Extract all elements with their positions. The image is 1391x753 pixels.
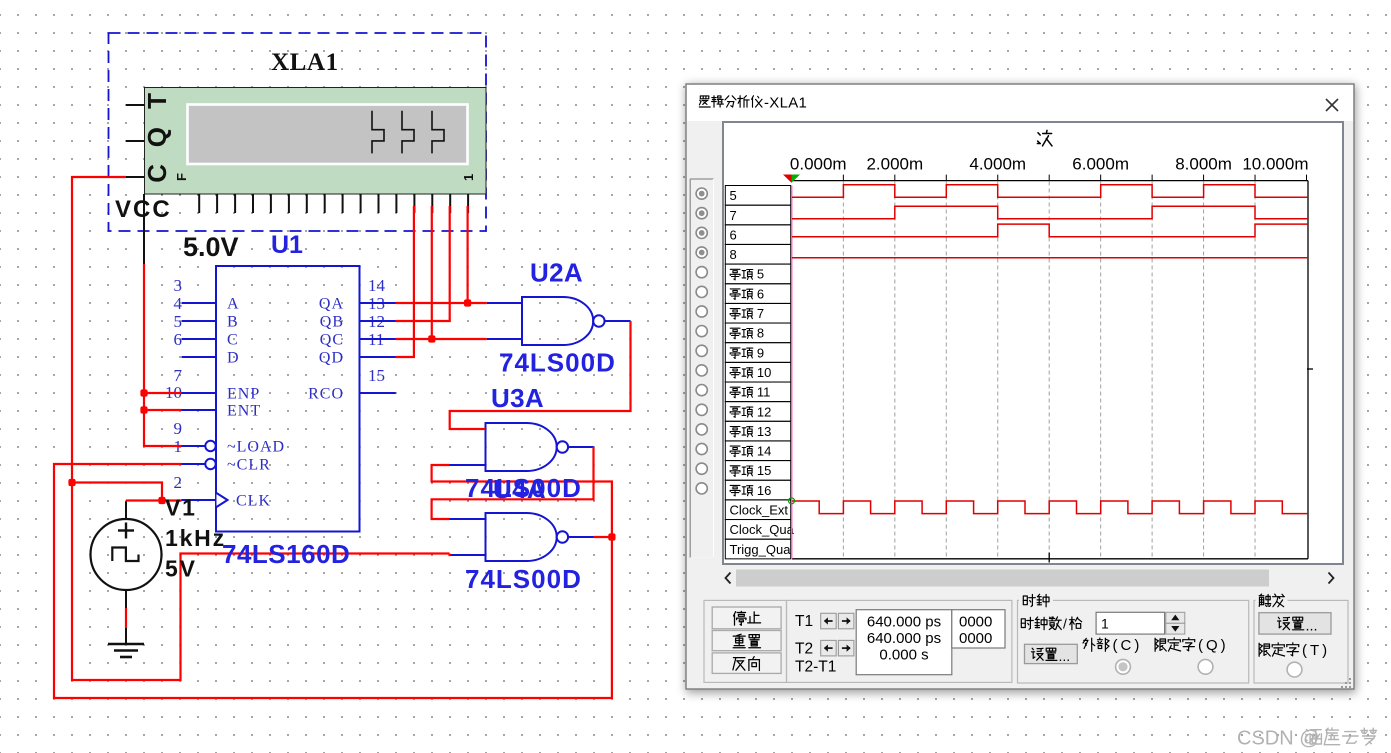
svg-text:0.000 s: 0.000 s: [879, 647, 928, 664]
waveform panel: [723, 122, 1343, 564]
svg-text:8.000m: 8.000m: [1175, 155, 1232, 174]
label 74LS160D: [222, 539, 350, 569]
svg-text:6: 6: [174, 330, 183, 349]
analyzer window frame and title bar: [686, 84, 1354, 689]
svg-text:10.000m: 10.000m: [1242, 155, 1308, 174]
value readout box: [952, 610, 1005, 648]
svg-text:640.000 ps: 640.000 ps: [867, 614, 941, 631]
svg-text:QD: QD: [319, 350, 344, 367]
svg-text:12: 12: [757, 404, 771, 419]
trigger settings button: [1259, 613, 1331, 635]
T1 arrows: [821, 613, 854, 629]
waveform channel 8: [792, 257, 1308, 259]
clocks-per-div input with spinner: [1096, 612, 1185, 634]
svg-text:8: 8: [730, 247, 737, 262]
svg-text:/: /: [1063, 616, 1067, 632]
svg-text:Trigg_Qua: Trigg_Qua: [730, 542, 792, 557]
svg-text:9: 9: [757, 345, 764, 360]
clock source V1: [91, 502, 162, 645]
svg-text:16: 16: [757, 483, 771, 498]
external (C) label: [1083, 637, 1142, 654]
group boxes: [704, 600, 1348, 683]
clock settings button: [1025, 644, 1078, 664]
svg-text:0000: 0000: [959, 630, 992, 647]
button reverse: [712, 653, 781, 674]
svg-text:A: A: [227, 296, 240, 313]
U1 left pin stubs A B C D ENP ENT: [182, 303, 217, 410]
button reset: [712, 631, 781, 651]
svg-text:1: 1: [461, 174, 476, 181]
svg-text:(C): (C): [1113, 637, 1143, 654]
svg-text:2: 2: [174, 473, 183, 492]
label 74LS00D (U3A): [465, 473, 582, 503]
svg-text:T2: T2: [795, 641, 813, 658]
svg-text:14: 14: [757, 444, 771, 459]
svg-text:5: 5: [730, 188, 737, 203]
wire CLK to U4A input B: [72, 483, 451, 681]
U1 ~LOAD pin with bubble: [182, 441, 216, 451]
svg-text:15: 15: [757, 463, 771, 478]
svg-text:5V: 5V: [165, 556, 197, 582]
svg-text:14: 14: [368, 276, 386, 295]
XLA1 marking 1: [461, 174, 476, 181]
NAND gate U3A 74LS00D: [450, 423, 594, 471]
wire VCC rail to ENP ENT ~LOAD: [144, 264, 182, 446]
ground: [108, 644, 144, 657]
label 74LS00D (U2A): [499, 348, 616, 378]
svg-text:T: T: [142, 93, 172, 109]
svg-text:5: 5: [174, 312, 183, 331]
label V1: [165, 495, 197, 521]
dashed grid lines: [843, 182, 1255, 559]
wire QB to XLA pin15: [396, 206, 450, 321]
svg-text:640.000 ps: 640.000 ps: [867, 630, 941, 647]
svg-text:5: 5: [757, 267, 764, 282]
waveform Clock_Ext: [792, 501, 1308, 514]
svg-text:RCO: RCO: [308, 386, 344, 403]
XLA1 pin Q: [126, 127, 172, 147]
U1 pin names: [227, 296, 344, 510]
cursor tick at 5ms: [1048, 553, 1050, 563]
label U4A: [493, 474, 546, 504]
XLA1 VCC pin wire: [143, 194, 145, 266]
svg-text:6: 6: [757, 286, 764, 301]
Clock_Ext green marker: [789, 498, 795, 504]
svg-text:1kHz: 1kHz: [165, 525, 226, 551]
group label trigger: [1256, 593, 1288, 607]
time readout box: [856, 610, 952, 675]
T2-T1 label: [795, 659, 836, 676]
svg-text:C: C: [142, 164, 172, 183]
U1 CLK pin with edge triangle: [182, 493, 228, 507]
label 5V: [165, 556, 197, 582]
label U2A: [530, 258, 583, 288]
wire ~CLR feedback from U4A output: [54, 464, 612, 698]
svg-text:F: F: [174, 173, 189, 181]
horizontal scrollbar: [723, 570, 1343, 587]
svg-text:8: 8: [757, 326, 764, 341]
label U3A: [491, 383, 544, 413]
svg-text:-XLA1: -XLA1: [764, 95, 807, 112]
time axis and plot border: [792, 175, 1313, 559]
time axis labels: [790, 155, 1309, 174]
svg-text:11: 11: [757, 385, 771, 400]
svg-text:QC: QC: [320, 332, 344, 349]
svg-text:T1: T1: [795, 613, 813, 630]
channel labels: [730, 188, 795, 557]
svg-text:(Q): (Q): [1198, 637, 1229, 654]
channel label boxes: [725, 186, 790, 559]
svg-text:ENT: ENT: [227, 403, 261, 420]
button stop: [712, 607, 781, 629]
svg-text:Q: Q: [142, 127, 172, 147]
wire QA to U2A input A: [396, 302, 487, 304]
XLA1 bottom channel pins 1-16: [199, 194, 468, 213]
svg-text:74LS00D: 74LS00D: [465, 564, 582, 594]
svg-text:(T): (T): [1302, 642, 1330, 659]
svg-text:U3A: U3A: [491, 383, 544, 413]
svg-text:2.000m: 2.000m: [866, 155, 923, 174]
U1 ~CLR pin with bubble: [182, 459, 216, 469]
T2 label: [795, 641, 813, 658]
XLA1 analyzer body with screen: [145, 88, 487, 195]
svg-text:9: 9: [174, 419, 183, 438]
label XLA1: [271, 49, 339, 76]
close button: [1326, 99, 1338, 111]
wire V1 negative to ground (red segment): [125, 608, 127, 628]
svg-text:U1: U1: [271, 231, 303, 259]
label VCC: [115, 196, 172, 223]
svg-text:0.000m: 0.000m: [790, 155, 847, 174]
window title: [699, 95, 807, 112]
resize grip: [1341, 678, 1351, 688]
axis title: [1037, 130, 1052, 146]
instrument XLA1 dashed outline: [109, 33, 487, 231]
svg-text:D: D: [227, 350, 240, 367]
svg-text:0000: 0000: [959, 614, 992, 631]
label U1: [271, 231, 303, 259]
NAND gate U2A 74LS00D: [487, 297, 631, 345]
svg-text:T2-T1: T2-T1: [795, 659, 836, 676]
XLA1 marking F: [174, 173, 189, 181]
svg-text:U4A: U4A: [493, 474, 546, 504]
svg-text:3: 3: [174, 276, 183, 295]
svg-text:1: 1: [1101, 616, 1109, 632]
T2 arrows: [821, 640, 854, 656]
svg-text:XLA1: XLA1: [271, 49, 339, 76]
NAND gate U4A 74LS00D: [450, 513, 594, 561]
qualifier (T) label: [1259, 642, 1330, 659]
wire QC branch to XLA pin14: [431, 206, 433, 339]
wire U4A output to U3A input B: [432, 465, 612, 537]
svg-text:CLK: CLK: [236, 493, 271, 510]
waveform channel 7: [792, 206, 1308, 219]
wire junctions: [68, 299, 615, 540]
svg-text:B: B: [227, 314, 239, 331]
qualifier T radio: [1287, 662, 1302, 677]
svg-text:QA: QA: [319, 296, 344, 313]
svg-text:13: 13: [757, 424, 771, 439]
svg-text:7: 7: [730, 208, 737, 223]
wire CLK to XLA C pin: [72, 177, 162, 501]
wire QD to XLA pin13: [396, 206, 414, 357]
svg-text:C: C: [227, 332, 239, 349]
wire U2A output to U3A input A: [450, 321, 631, 429]
U1 pin numbers: [165, 276, 386, 492]
svg-text:VCC: VCC: [115, 196, 172, 223]
waveform area left edge: [791, 186, 793, 559]
svg-text:~CLR: ~CLR: [227, 457, 271, 474]
waveform channel 6: [792, 224, 1308, 237]
qualifier (Q) label: [1155, 637, 1229, 654]
label 74LS00D (U4A): [465, 564, 582, 594]
XLA1 pin T (top left): [126, 93, 172, 109]
svg-text:5.0V: 5.0V: [183, 232, 239, 262]
T1 label: [795, 613, 813, 630]
wire QA branch to XLA pin16: [467, 206, 469, 303]
svg-text:15: 15: [368, 366, 385, 385]
svg-text:Clock_Qua: Clock_Qua: [730, 522, 795, 537]
svg-text:Clock_Ext: Clock_Ext: [730, 503, 789, 518]
external radio selected: [1116, 659, 1131, 674]
wire QC to U2A input B: [396, 338, 487, 340]
svg-text:V1: V1: [165, 495, 197, 521]
U1 right pin stubs QA QB QC QD RCO: [360, 303, 396, 393]
qualifier Q radio: [1198, 659, 1213, 674]
label 1kHz: [165, 525, 226, 551]
svg-text:QB: QB: [320, 314, 344, 331]
svg-text:...: ...: [1059, 648, 1071, 664]
svg-text:4: 4: [174, 294, 183, 313]
group label clock: [1019, 593, 1053, 607]
waveform channel 5: [792, 185, 1308, 198]
XLA1 pin C (clock): [126, 164, 172, 183]
svg-text:ENP: ENP: [227, 386, 260, 403]
XLA1 screen waveform icons: [372, 111, 444, 154]
wire V1 to CLK: [126, 499, 182, 501]
svg-text:~LOAD: ~LOAD: [227, 439, 285, 456]
watermark: [1237, 728, 1377, 750]
svg-text:74LS00D: 74LS00D: [499, 348, 616, 378]
channel radio buttons: [690, 179, 713, 558]
wire U3A output to U4A input A: [432, 447, 594, 519]
svg-text:U2A: U2A: [530, 258, 583, 288]
svg-text:74LS160D: 74LS160D: [222, 539, 350, 569]
trigger marker: [783, 175, 800, 183]
svg-text:...: ...: [1306, 619, 1318, 635]
svg-text:4.000m: 4.000m: [969, 155, 1026, 174]
svg-text:10: 10: [757, 365, 771, 380]
U1 chip body 74LS160D: [216, 266, 360, 532]
net label 5.0V: [183, 232, 239, 262]
svg-text:6.000m: 6.000m: [1072, 155, 1129, 174]
svg-text:7: 7: [757, 306, 764, 321]
svg-text:6: 6: [730, 227, 737, 242]
clocks-per-div label: [1021, 616, 1081, 632]
